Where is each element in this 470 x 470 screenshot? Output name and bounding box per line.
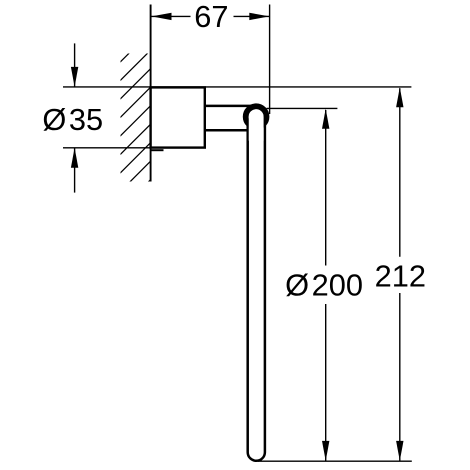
svg-text:Ø 200: Ø 200 [285,268,363,303]
svg-text:212: 212 [375,258,426,293]
svg-text:67: 67 [194,0,228,34]
svg-text:Ø 35: Ø 35 [42,102,103,137]
